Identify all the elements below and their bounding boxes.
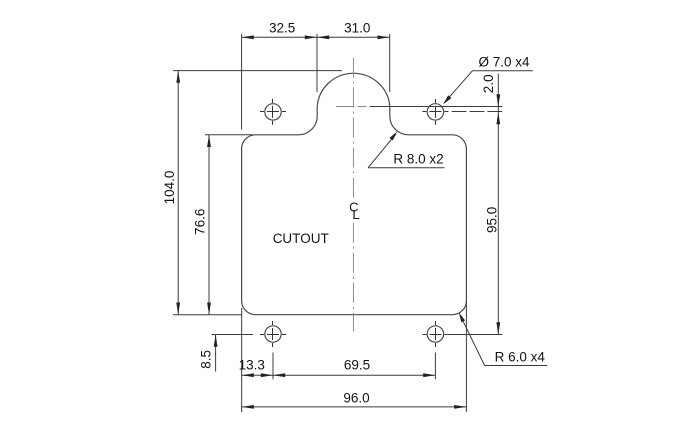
svg-text:32.5: 32.5 xyxy=(269,21,295,36)
svg-text:R 8.0 x2: R 8.0 x2 xyxy=(393,151,443,166)
svg-text:13.3: 13.3 xyxy=(239,357,265,372)
hole bottom-left xyxy=(265,326,281,342)
svg-text:104.0: 104.0 xyxy=(162,171,177,205)
svg-text:31.0: 31.0 xyxy=(344,21,370,36)
cutout outline xyxy=(242,73,467,314)
hole bottom-right xyxy=(427,326,443,342)
svg-text:L: L xyxy=(352,207,359,222)
svg-text:8.5: 8.5 xyxy=(199,350,214,369)
svg-text:95.0: 95.0 xyxy=(485,207,500,233)
dimension 31.0 line xyxy=(317,36,390,38)
vertical centerline xyxy=(352,58,354,202)
dimension 13.3 xyxy=(242,374,273,376)
svg-text:Ø 7.0 x4: Ø 7.0 x4 xyxy=(478,54,530,69)
svg-text:76.6: 76.6 xyxy=(192,209,207,235)
dimension 69.5 xyxy=(273,374,435,376)
svg-text:2.0: 2.0 xyxy=(481,74,496,93)
extension lines below shape xyxy=(241,308,243,412)
dimension 76.6 xyxy=(205,134,253,136)
dimension 104.0 xyxy=(173,70,342,72)
svg-text:R 6.0 x4: R 6.0 x4 xyxy=(495,350,546,365)
dimension 95.0 xyxy=(446,334,502,336)
dimension 32.5 line xyxy=(242,36,317,38)
dimension 8.5 xyxy=(212,334,254,336)
dome horizontal centerline xyxy=(336,106,355,108)
dimension 32.5 / 31.0 extension lines xyxy=(241,34,243,130)
svg-text:CUTOUT: CUTOUT xyxy=(273,231,329,246)
hole top-left xyxy=(265,104,281,120)
leader diameter 7.0 x4 xyxy=(473,70,534,72)
dimension 96.0 xyxy=(242,406,467,408)
leader R 6.0 x4 xyxy=(485,365,547,367)
svg-text:96.0: 96.0 xyxy=(343,390,369,405)
leader R 8.0 x2 xyxy=(368,167,444,169)
svg-text:69.5: 69.5 xyxy=(344,357,370,372)
hole top-right xyxy=(427,104,443,120)
dimension 2.0 xyxy=(452,111,503,113)
